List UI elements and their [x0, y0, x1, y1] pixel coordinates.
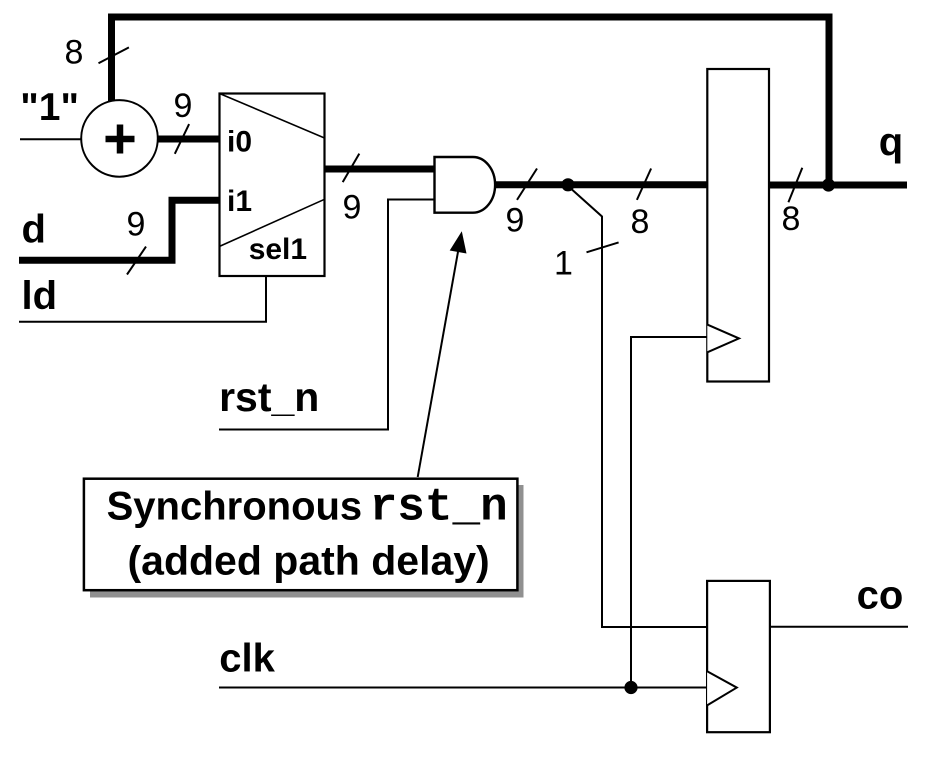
wire AND output to register D (q bus)	[494, 181, 710, 188]
svg-text:"1": "1"	[20, 86, 79, 129]
callout box shadow	[90, 485, 524, 598]
bus slash 8 (q out)	[788, 168, 802, 203]
wire d to mux i1	[19, 200, 221, 260]
wire clk	[219, 687, 707, 689]
wire feedback top (q to adder)	[112, 17, 830, 185]
bus slash 9 (AND out)	[517, 169, 537, 200]
wire co output	[769, 626, 908, 628]
svg-text:9: 9	[506, 201, 525, 239]
svg-text:clk: clk	[219, 637, 275, 681]
node junction q feedback	[822, 178, 835, 191]
svg-text:8: 8	[782, 200, 801, 238]
bus slash 9 (mux out)	[343, 154, 360, 183]
svg-text:ld: ld	[22, 274, 58, 318]
svg-text:9: 9	[174, 87, 193, 125]
svg-text:8: 8	[631, 203, 650, 241]
bus slash 9 (d input)	[127, 247, 146, 275]
wire adder output to mux i0	[156, 136, 221, 143]
svg-text:8: 8	[65, 34, 84, 72]
node junction clk	[624, 681, 637, 694]
svg-text:i1: i1	[227, 185, 252, 218]
register R2 (carry, 1-bit)	[707, 581, 770, 732]
mux M1	[220, 94, 325, 277]
svg-text:Synchronous: Synchronous	[107, 485, 363, 529]
svg-text:i0: i0	[227, 126, 252, 159]
svg-text:9: 9	[343, 189, 362, 227]
node junction AND output	[561, 178, 574, 191]
svg-text:co: co	[857, 573, 904, 617]
wire rst_n to AND gate	[219, 200, 434, 430]
adder U1	[81, 100, 158, 177]
svg-text:1: 1	[554, 245, 573, 283]
bus slash 9 (adder out)	[175, 124, 189, 154]
bus slash 8 (register in)	[637, 169, 651, 200]
register R1 (8-bit)	[707, 69, 769, 382]
svg-text:(added path delay): (added path delay)	[128, 538, 490, 584]
svg-text:d: d	[22, 207, 46, 251]
svg-text:rst_n: rst_n	[370, 482, 508, 534]
and gate U2	[435, 157, 496, 213]
svg-text:sel1: sel1	[249, 233, 307, 266]
wire clk riser to register clock	[631, 337, 707, 688]
wire 1-bit branch from node to carry register	[568, 186, 707, 627]
bus slash 1 (carry branch)	[587, 242, 619, 252]
svg-text:q: q	[879, 120, 903, 164]
wire "1" constant input to adder	[20, 138, 82, 140]
callout box Synchronous rst_n (added path delay)	[84, 479, 518, 591]
bus slash 8 (feedback)	[99, 47, 129, 63]
wire mux output to AND gate	[325, 166, 434, 173]
svg-text:9: 9	[127, 206, 146, 244]
wire ld to mux sel1	[19, 275, 266, 322]
wire register output q	[768, 182, 907, 189]
callout arrow to AND gate	[418, 231, 467, 477]
svg-text:rst_n: rst_n	[219, 374, 319, 420]
